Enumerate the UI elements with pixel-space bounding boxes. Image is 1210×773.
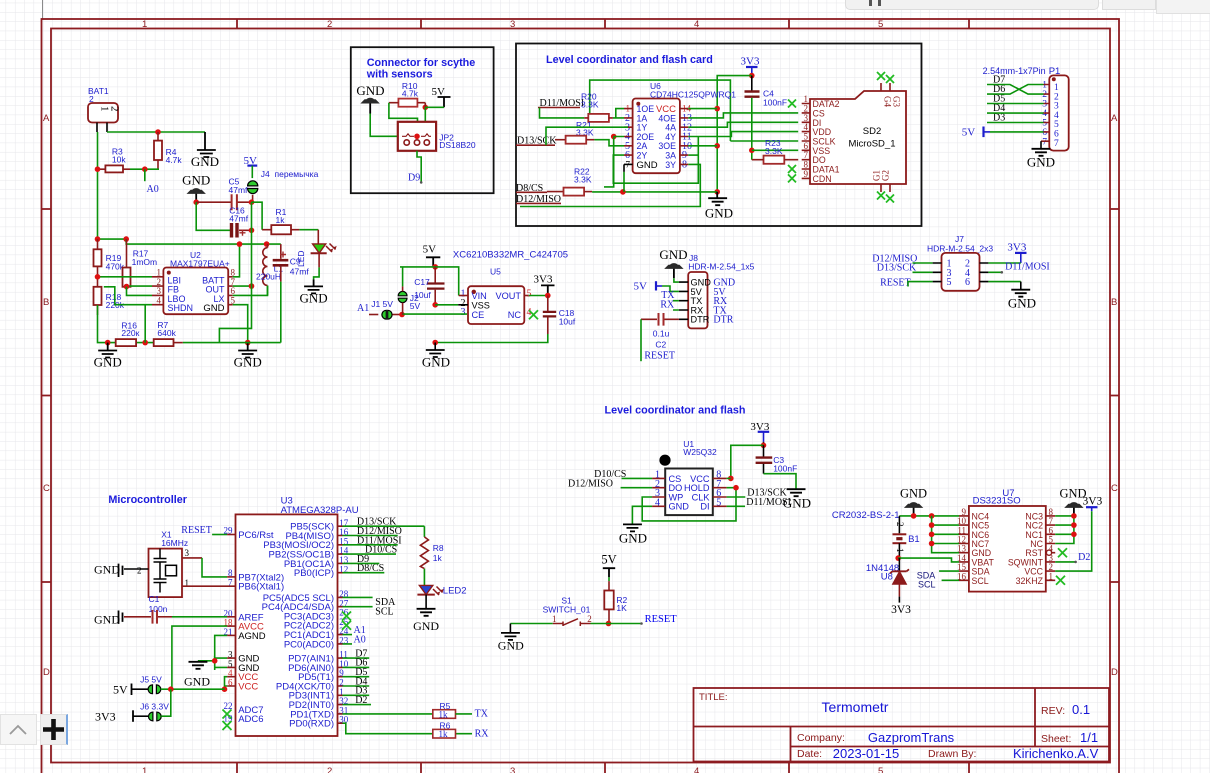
left pin numbers [224, 526, 234, 724]
svg-text:Date:: Date: [797, 748, 822, 760]
wire R3 row [130, 168, 159, 170]
svg-text:B: B [43, 297, 49, 308]
IC U2 MAX1797EUA+ [163, 268, 228, 315]
ground (U5) [426, 350, 445, 357]
GND rail bottom [108, 342, 281, 344]
box frame [516, 44, 922, 227]
svg-text:RX: RX [475, 728, 490, 739]
wire D7 (crosses to pin2) [987, 85, 1044, 95]
svg-text:GND: GND [94, 355, 122, 370]
wire pin6 to ground [988, 281, 1020, 283]
wire main rail y244 [126, 239, 281, 244]
svg-text:Microcontroller: Microcontroller [108, 494, 187, 506]
svg-text:100nF: 100nF [773, 464, 797, 474]
wire LX to L1 bottom [233, 286, 268, 296]
wire GND to JP2 left [370, 114, 398, 137]
svg-text:SCL: SCL [918, 580, 936, 590]
top toolbar fragment [845, 0, 1099, 10]
P1 pin stubs [1041, 85, 1049, 142]
svg-text:2: 2 [109, 106, 121, 112]
ADC7 ADC6 X marks [223, 710, 232, 719]
svg-text:GND: GND [659, 247, 687, 262]
svg-text:5V: 5V [423, 244, 437, 256]
svg-text:4: 4 [157, 295, 162, 305]
svg-text:4: 4 [1042, 109, 1047, 119]
svg-text:3.3K: 3.3K [581, 100, 599, 110]
inductor L1 [264, 241, 270, 247]
svg-text:220uH: 220uH [256, 272, 281, 282]
A1 A0 [338, 635, 343, 644]
svg-text:1k: 1k [276, 215, 286, 225]
svg-text:SWITCH_01: SWITCH_01 [543, 604, 591, 614]
svg-text:2: 2 [89, 94, 94, 104]
node A0 stub [144, 169, 146, 181]
svg-text:5V: 5V [410, 301, 421, 311]
svg-text:3V3: 3V3 [1007, 242, 1026, 254]
main RESET wire [510, 623, 641, 625]
wire 5V junction down to JP2 right pin [424, 107, 426, 135]
wire D4 [987, 112, 1044, 114]
RST bubble + X [1046, 550, 1051, 555]
svg-text:PB0(ICP): PB0(ICP) [294, 568, 334, 579]
pin numbers [957, 507, 1054, 581]
svg-text:D9: D9 [408, 173, 420, 184]
svg-text:MAX1797EUA+: MAX1797EUA+ [170, 258, 230, 268]
svg-text:DI: DI [700, 502, 709, 512]
wire R18col to SHDN [144, 305, 146, 343]
svg-text:A0: A0 [147, 184, 159, 195]
svg-text:D13/SCK: D13/SCK [877, 263, 917, 274]
wire VSS [435, 304, 458, 306]
ground (left rail) [98, 343, 117, 358]
wire CE row [402, 313, 467, 315]
svg-text:Drawn By:: Drawn By: [928, 748, 976, 760]
svg-text:5: 5 [947, 277, 952, 288]
svg-text:100n: 100n [149, 604, 168, 614]
svg-text:1: 1 [142, 19, 147, 30]
svg-text:1k: 1k [433, 553, 443, 563]
svg-text:1k: 1k [439, 729, 449, 739]
ground (J7) [1011, 290, 1030, 297]
wire LBI row [98, 276, 153, 278]
wire BATT to rail [233, 244, 240, 277]
svg-text:PC0(ADC0): PC0(ADC0) [284, 639, 334, 650]
wire CLK row [727, 496, 746, 498]
capacitor C18 [547, 296, 549, 312]
svg-text:3: 3 [510, 19, 515, 30]
capacitor C17 [434, 267, 436, 283]
svg-text:Level coordinator and flash ca: Level coordinator and flash card [546, 54, 713, 66]
32KHZ X [1056, 576, 1065, 585]
svg-text:0.1u: 0.1u [653, 329, 670, 339]
ground (U1) [623, 524, 642, 531]
svg-text:3: 3 [1042, 100, 1047, 110]
svg-text:SHDN: SHDN [168, 303, 194, 313]
wire 3V3 to VCC vertical [717, 76, 752, 192]
svg-text:32KHZ: 32KHZ [1016, 576, 1044, 586]
SD2 G4/G3 top stubs [881, 83, 890, 91]
wires left [913, 262, 933, 264]
svg-text:2: 2 [461, 298, 466, 309]
resistor R18 [94, 287, 102, 305]
ground (U2) [245, 340, 251, 346]
svg-text:REV:: REV: [1041, 705, 1065, 717]
svg-text:D: D [1111, 667, 1118, 678]
svg-text:2: 2 [327, 766, 332, 773]
svg-text:GND: GND [191, 154, 219, 169]
capacitor C2 [641, 318, 679, 320]
svg-text:GND: GND [94, 563, 120, 577]
svg-text:D2: D2 [355, 695, 367, 706]
capacitor C9 [280, 244, 282, 259]
wire pin7 to ground [1040, 141, 1042, 149]
svg-text:R8: R8 [433, 543, 444, 553]
svg-text:GND: GND [1027, 155, 1055, 170]
SD2 pin stubs [802, 104, 810, 179]
svg-text:GND: GND [234, 355, 262, 370]
svg-text:1: 1 [142, 766, 147, 773]
wire BAT+ to GND [107, 131, 205, 133]
wire D6 (crosses to pin1) [987, 85, 1044, 95]
wire R18 bottom to GND rail [98, 305, 108, 343]
ground (S1) [509, 624, 511, 633]
svg-text:3V3: 3V3 [95, 709, 116, 723]
box frame [351, 47, 494, 193]
D7..D2 wires [338, 658, 343, 705]
svg-text:6: 6 [965, 277, 970, 288]
svg-text:9: 9 [804, 169, 809, 179]
no-connect X on NC [529, 310, 538, 319]
resistor R7 [154, 339, 174, 346]
svg-text:2023-01-15: 2023-01-15 [833, 746, 900, 761]
svg-text:HDR-M-2.54_2x3: HDR-M-2.54_2x3 [927, 243, 993, 253]
TXD wire + resistor R5 [338, 713, 343, 715]
svg-text:C: C [1111, 483, 1118, 494]
resistor R16 [116, 339, 136, 346]
svg-text:GND: GND [203, 303, 224, 314]
svg-text:G4: G4 [883, 96, 893, 107]
wire GND pin [632, 506, 652, 524]
svg-text:C17: C17 [414, 277, 430, 287]
svg-text:D11/MOSI: D11/MOSI [1005, 261, 1050, 272]
wire R10 left to JP2 mid [389, 103, 418, 137]
SDA SCL wires [338, 597, 343, 606]
svg-text:GND: GND [498, 639, 524, 653]
svg-text:RESET: RESET [880, 277, 911, 288]
svg-text:Sheet:: Sheet: [1041, 733, 1071, 745]
svg-text:5: 5 [1042, 119, 1047, 129]
svg-text:16MHz: 16MHz [161, 538, 188, 548]
svg-text:4: 4 [694, 19, 699, 30]
svg-text:D11/MOSI: D11/MOSI [746, 497, 791, 508]
wire NC4 row [899, 515, 959, 517]
svg-text:3V3: 3V3 [741, 56, 760, 68]
wire 5V to VIN [400, 267, 459, 296]
ground (U6) [708, 192, 727, 205]
svg-text:GND: GND [413, 619, 439, 633]
svg-text:GND: GND [356, 83, 384, 98]
svg-text:G2: G2 [881, 170, 891, 181]
svg-text:3V3: 3V3 [534, 274, 553, 286]
svg-text:CR2032-BS-2-1: CR2032-BS-2-1 [832, 510, 900, 521]
svg-text:DTR: DTR [691, 315, 710, 325]
svg-text:220к: 220к [121, 328, 139, 338]
wire D3 [987, 122, 1044, 124]
wire pin4 to D11/MOSI [988, 271, 1001, 273]
svg-text:GND: GND [300, 291, 328, 306]
svg-text:GND: GND [182, 172, 210, 187]
svg-text:2: 2 [895, 522, 905, 527]
junction R4 top [155, 129, 161, 135]
svg-text:Kirichenko.A.V: Kirichenko.A.V [1013, 746, 1099, 761]
svg-text:B1: B1 [908, 534, 920, 545]
SD2 MicroSD_1 [810, 91, 906, 184]
capacitor C5 [196, 201, 251, 203]
connector JP2 DS18B20 [398, 122, 436, 151]
svg-text:MicroSD_1: MicroSD_1 [849, 139, 896, 150]
U1 pin stubs [652, 478, 727, 506]
svg-text:1k: 1k [439, 709, 449, 719]
svg-text:ADC6: ADC6 [238, 714, 263, 725]
ground (LED) [304, 279, 323, 293]
svg-text:5: 5 [527, 289, 532, 300]
wire VBAT [898, 558, 959, 562]
resistor R8 (zigzag) + wire [423, 526, 425, 537]
J4/C16/OUT column [251, 202, 253, 286]
svg-text:3V3: 3V3 [1083, 496, 1103, 508]
svg-text:Company:: Company: [797, 732, 845, 744]
wire D5 [987, 103, 1044, 105]
svg-text:5V: 5V [113, 682, 128, 696]
resistor R4 [154, 141, 162, 160]
svg-text:1: 1 [1042, 81, 1047, 91]
svg-text:100nF: 100nF [763, 98, 787, 108]
svg-text:5V: 5V [962, 127, 976, 139]
left pin names [972, 511, 1044, 585]
svg-text:4.7k: 4.7k [166, 155, 183, 165]
svg-text:LED: LED [296, 250, 306, 267]
wire R21 to pin5 [594, 140, 624, 146]
ground (BAT+) [197, 132, 216, 157]
svg-text:47mf: 47mf [229, 185, 249, 195]
svg-text:VCC: VCC [656, 104, 676, 115]
wire D9 [417, 151, 421, 183]
svg-text:47mf: 47mf [229, 213, 249, 223]
U3 body [236, 514, 338, 736]
svg-text:C2: C2 [655, 340, 666, 350]
svg-text:10k: 10k [112, 155, 126, 165]
capacitor C3 [763, 445, 765, 457]
wire AVCC [227, 625, 235, 627]
SD2 G1/G2 bottom stubs [881, 184, 890, 192]
svg-text:4.7k: 4.7k [402, 89, 419, 99]
svg-text:GND: GND [619, 531, 647, 546]
wire 1Y left [546, 127, 628, 145]
wire R22 row to GND junction [592, 191, 717, 193]
svg-text:A: A [1111, 113, 1118, 124]
svg-text:3: 3 [510, 766, 515, 773]
svg-text:DS18B20: DS18B20 [439, 140, 476, 150]
wire DI row [727, 505, 745, 507]
junction 5V [423, 105, 429, 111]
J8 pin stubs [679, 282, 688, 319]
svg-text:5: 5 [878, 19, 883, 30]
resistor R3 [105, 165, 123, 172]
svg-text:VCC: VCC [238, 681, 258, 692]
svg-text:J1 5V: J1 5V [371, 299, 393, 309]
svg-text:GND: GND [94, 613, 120, 627]
svg-text:Connector for scythe: Connector for scythe [367, 57, 476, 69]
svg-text:GND: GND [1008, 296, 1036, 311]
SQWINT wire + D2 label [1055, 561, 1075, 563]
wire C18 bottom to GND [435, 334, 548, 343]
left pin names [238, 530, 284, 725]
wire SCLK from bus [730, 140, 798, 142]
wire FB row from R17 bottom [127, 285, 153, 288]
svg-text:J4 перемычка: J4 перемычка [261, 169, 319, 179]
svg-text:5: 5 [878, 766, 883, 773]
capacitor C4 [751, 76, 753, 91]
svg-text:HDR-M-2.54_1x5: HDR-M-2.54_1x5 [688, 261, 754, 271]
resistor R2 [604, 591, 613, 610]
svg-text:D12/MISO: D12/MISO [568, 478, 613, 489]
svg-text:GND: GND [900, 487, 927, 501]
battery BAT1 [88, 103, 118, 123]
wire 3V3 to VCC [731, 445, 764, 478]
svg-text:5V: 5V [601, 553, 616, 567]
svg-text:G3: G3 [892, 96, 902, 107]
svg-text:GND: GND [184, 675, 210, 689]
svg-text:W25Q32: W25Q32 [683, 447, 717, 457]
svg-text:A: A [43, 113, 50, 124]
wire C5 row to R1 column [252, 202, 263, 230]
wires U6 right to SD2 rows [688, 108, 717, 110]
svg-text:2: 2 [137, 566, 142, 576]
svg-text:3Y: 3Y [665, 160, 676, 170]
net labels D7..D3 [993, 75, 1005, 124]
svg-text:CE: CE [472, 310, 485, 320]
title block outline [694, 688, 1110, 762]
wire BAT- left column [97, 132, 99, 239]
svg-text:VSS: VSS [472, 300, 490, 310]
svg-text:C1: C1 [149, 594, 160, 604]
svg-text:D2: D2 [1078, 552, 1090, 563]
pin stubs [959, 516, 1055, 580]
svg-text:2: 2 [1042, 90, 1047, 100]
X marks pins 26 25 [342, 612, 351, 621]
svg-text:1: 1 [552, 614, 557, 624]
svg-text:Termometr: Termometr [822, 699, 889, 715]
P1 body [1049, 75, 1068, 150]
right NC bus [1055, 516, 1074, 544]
svg-text:3.3K: 3.3K [765, 146, 783, 156]
svg-text:CDN: CDN [813, 174, 832, 184]
svg-text:with sensors: with sensors [366, 69, 433, 81]
wire pin9 3A [688, 154, 698, 156]
svg-text:7: 7 [1054, 139, 1059, 149]
svg-text:SCL: SCL [375, 606, 393, 617]
wire OUT to C16 column [233, 285, 252, 287]
wire L1 bottom [267, 286, 269, 296]
U2 pin stubs [152, 277, 233, 305]
marker dot [659, 455, 670, 466]
wire VSS row [752, 149, 798, 151]
svg-text:GazpromTrans: GazpromTrans [868, 730, 955, 745]
no-connect X pin8 [788, 165, 796, 173]
wire R1 to LED [299, 229, 318, 231]
capacitor C16 polarized [232, 223, 238, 238]
svg-text:TITLE:: TITLE: [699, 692, 728, 703]
svg-text:VOUT: VOUT [495, 291, 521, 301]
right pin numbers [339, 518, 349, 725]
svg-text:5: 5 [231, 295, 236, 305]
svg-text:3.3K: 3.3K [574, 175, 592, 185]
resistor R19 [94, 249, 102, 266]
U6 pin stubs [624, 109, 688, 165]
frame column ticks top [237, 19, 969, 29]
RXD wire + resistor R6 [338, 722, 343, 724]
wire pin7 GND elbow [623, 164, 625, 172]
wire SHDN row [104, 287, 152, 305]
svg-text:1K: 1K [616, 603, 627, 613]
wire C1 to AREF [172, 616, 227, 618]
svg-text:DTR: DTR [713, 315, 733, 326]
svg-text:U5: U5 [490, 267, 501, 277]
svg-text:XC6210B332MR_C424705: XC6210B332MR_C424705 [453, 249, 568, 260]
svg-text:10uf: 10uf [559, 317, 576, 327]
ground (MCU) [189, 661, 208, 669]
wire R20 to pins 1,2 [613, 109, 624, 118]
svg-text:RESET: RESET [645, 614, 678, 625]
svg-text:640k: 640k [157, 328, 176, 338]
svg-text:SCL: SCL [972, 576, 989, 586]
ground (C3) [787, 489, 806, 496]
right pin names [262, 522, 334, 730]
svg-text:4: 4 [694, 766, 699, 773]
svg-text:3: 3 [185, 548, 190, 558]
wire WP loop to HOLD [642, 488, 736, 521]
ground (LED2) [417, 609, 436, 616]
resistor R17 [123, 268, 131, 287]
svg-text:NC: NC [508, 310, 522, 320]
svg-text:SD2: SD2 [863, 126, 881, 137]
resistor R1 [271, 225, 291, 234]
wire bus y80 [590, 80, 731, 141]
no-connect X pin1 [788, 100, 796, 108]
svg-text:RESET: RESET [644, 351, 675, 362]
wire LBO row [127, 287, 153, 296]
frame row ticks [42, 209, 1120, 582]
svg-text:LED2: LED2 [443, 586, 467, 597]
wire VOUT [524, 295, 529, 297]
frame column ticks bottom [237, 763, 969, 773]
svg-text:GND: GND [637, 160, 658, 171]
svg-text:GND: GND [669, 502, 690, 512]
U1 body [665, 469, 713, 516]
svg-text:TX: TX [475, 709, 489, 720]
svg-text:2: 2 [587, 614, 592, 624]
LED (green) [313, 244, 326, 253]
wire AGND [227, 634, 235, 636]
no-connect X pin9 [788, 174, 796, 182]
NC bus vertical [932, 516, 959, 553]
svg-text:1mOm: 1mOm [132, 257, 158, 267]
bottom-left chevron button [0, 714, 37, 745]
svg-text:3V3: 3V3 [891, 604, 911, 616]
svg-text:Level coordinator and flash: Level coordinator and flash [605, 405, 746, 417]
svg-text:0.1: 0.1 [1072, 702, 1090, 717]
wire FB net elbow [219, 286, 251, 343]
